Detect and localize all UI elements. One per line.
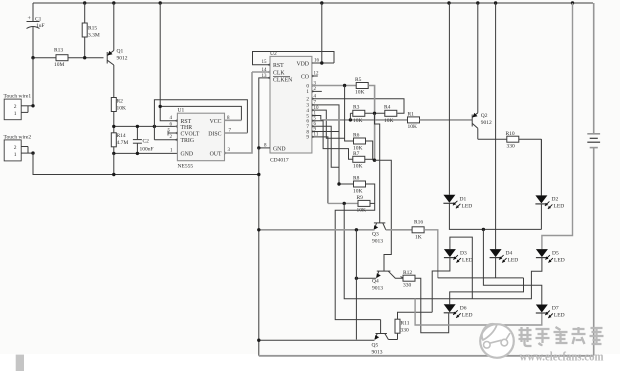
resistor R13 — [33, 57, 56, 59]
diode D6 LED — [444, 304, 456, 312]
svg-text:10K: 10K — [384, 118, 394, 124]
wire CD4017 VDD from rail — [321, 3, 323, 63]
svg-text:LED: LED — [554, 313, 565, 319]
wire V+ top rail — [33, 2, 593, 4]
wire D2 anode — [540, 139, 542, 195]
svg-text:R9: R9 — [357, 195, 364, 201]
wire Q6 output jog to R7 — [312, 121, 353, 160]
svg-text:R15: R15 — [88, 26, 97, 32]
wire R16 right down to LED cathode row — [424, 230, 438, 278]
resistor R6 — [354, 138, 366, 144]
wire bottom ground rail — [259, 355, 594, 357]
resistor R7 — [353, 156, 365, 162]
svg-text:100nF: 100nF — [140, 147, 154, 153]
svg-text:9: 9 — [306, 135, 309, 141]
watermark chinese text — [519, 327, 532, 346]
wire THR row (R2/R14/C2 to 555) — [114, 125, 178, 127]
wire Q0 to R6 column — [345, 86, 354, 142]
node top rail junctions — [83, 1, 86, 4]
svg-text:D3: D3 — [460, 251, 467, 257]
wire CD4017 CLK stub — [252, 71, 270, 73]
svg-text:R12: R12 — [403, 270, 412, 276]
wire R8 right down to node row — [335, 184, 380, 320]
wire Q5 output jog to gray row — [312, 116, 321, 120]
svg-text:330: 330 — [403, 283, 412, 289]
svg-text:10K: 10K — [353, 118, 363, 124]
svg-text:R6: R6 — [353, 133, 360, 139]
svg-text:DISC: DISC — [208, 132, 221, 138]
resistor R9 — [358, 200, 370, 206]
svg-text:1: 1 — [306, 89, 309, 95]
capacitor C2 — [136, 126, 138, 139]
svg-text:Q2: Q2 — [481, 113, 488, 119]
svg-text:3.3M: 3.3M — [88, 33, 100, 39]
capacitor C1 — [32, 3, 34, 21]
wire Q4 emitter row — [356, 277, 376, 279]
node R3-R4 junction to Q3 base — [373, 112, 376, 115]
svg-text:9013: 9013 — [372, 286, 383, 292]
wire R6 right down to R7 node — [366, 141, 373, 160]
wire 555 THR-TRIG-DISC loop — [154, 100, 247, 140]
wire D3 cathode jog — [432, 258, 450, 313]
555 pin chevrons — [175, 119, 177, 122]
wire Q2 output row to R4 loop — [312, 99, 404, 114]
svg-text:Touch wire2: Touch wire2 — [4, 134, 32, 140]
resistor R2 — [113, 97, 115, 99]
wire Q4 output jog to R6 — [312, 110, 345, 138]
diode D4 LED — [490, 249, 502, 257]
wire R5 right gray down — [368, 86, 374, 161]
svg-text:R5: R5 — [355, 77, 362, 83]
ui gray square bottom left — [16, 355, 24, 371]
wire Q5 collector to R11 — [388, 339, 397, 341]
svg-text:www.elecfans.com: www.elecfans.com — [520, 349, 604, 364]
svg-text:R16: R16 — [414, 220, 423, 226]
svg-text:OUT: OUT — [210, 152, 222, 158]
wire D5 cathode staircase to R11 node — [432, 258, 542, 299]
svg-text:VDD: VDD — [296, 62, 309, 68]
svg-text:LED: LED — [462, 204, 473, 210]
svg-text:2: 2 — [14, 145, 17, 151]
wire D4 anode from rail — [495, 3, 497, 249]
resistor R3 — [349, 113, 351, 120]
svg-text:D5: D5 — [552, 251, 559, 257]
svg-text:GND: GND — [273, 147, 286, 153]
svg-text:2: 2 — [14, 104, 17, 110]
svg-text:D4: D4 — [506, 251, 513, 257]
wire D6 anode row — [450, 278, 524, 304]
svg-text:9012: 9012 — [481, 120, 492, 126]
svg-text:R8: R8 — [353, 176, 360, 182]
resistor R11 — [395, 319, 400, 333]
wire Q3 collector row to R16 — [386, 229, 412, 231]
wire Q0 output row to R5 — [312, 85, 357, 87]
svg-text:9012: 9012 — [117, 56, 128, 62]
wire 555 OUT to CD4017 CLK — [225, 72, 253, 153]
svg-text:Q4: Q4 — [372, 279, 379, 285]
svg-text:CLKEN: CLKEN — [273, 78, 293, 84]
svg-text:LED: LED — [508, 258, 519, 264]
wire Q9 output to R9 — [312, 137, 328, 204]
svg-text:LED: LED — [462, 313, 473, 319]
diode D7 LED — [536, 305, 548, 313]
wire Q3 output to R8 column — [312, 105, 339, 184]
svg-text:1: 1 — [14, 152, 17, 158]
svg-text:D7: D7 — [552, 306, 559, 312]
svg-text:R4: R4 — [384, 105, 391, 111]
wire R9 node branch down to LED sink row — [344, 203, 432, 298]
node R13-R15 junction — [83, 56, 86, 59]
svg-text:C1: C1 — [35, 17, 42, 23]
diode D1 LED — [443, 195, 455, 203]
svg-text:9013: 9013 — [372, 350, 383, 356]
svg-text:10K: 10K — [357, 208, 367, 214]
wire D2 cathode down to row — [540, 204, 542, 230]
svg-text:R14: R14 — [117, 133, 126, 139]
diode D3 LED — [444, 249, 456, 257]
svg-text:CLK: CLK — [273, 71, 285, 77]
wire D3 anode loop — [450, 237, 472, 299]
svg-text:Q3: Q3 — [372, 232, 379, 238]
svg-text:R10: R10 — [506, 131, 515, 137]
wire emitter tie column Q3-Q4-Q5 — [355, 230, 357, 340]
wire cathode row down to R16 row — [483, 229, 541, 304]
wire 555 RST from rail — [160, 3, 177, 121]
svg-text:VCC: VCC — [210, 119, 222, 125]
resistor R8 — [339, 183, 354, 185]
wire 555 DISC stub — [225, 132, 248, 134]
wire Q1 stub pin2 — [312, 90, 322, 92]
svg-text:1K: 1K — [415, 235, 422, 241]
wire touch wire2 down to gnd row — [33, 153, 259, 174]
svg-text:U1: U1 — [178, 108, 185, 114]
wire 555 VCC stub — [225, 119, 242, 121]
wire R12 right down to D6 cathode row — [415, 278, 449, 333]
wire D4 cathode joins sink row — [495, 258, 497, 278]
transistor Q1 9012 — [106, 52, 108, 64]
svg-text:CVOLT: CVOLT — [181, 132, 200, 138]
wire R9 right up to R8 node — [370, 202, 375, 204]
resistor R1 — [408, 117, 420, 123]
wire R14 col to touch gnd row — [113, 153, 115, 174]
wire CD4017 CLKEN to ground column — [259, 78, 270, 148]
svg-text:RST: RST — [273, 63, 284, 69]
svg-text:D6: D6 — [460, 306, 467, 312]
wire Q5 emitter row to ground — [259, 339, 375, 341]
svg-text:15: 15 — [262, 60, 268, 65]
svg-text:4.7M: 4.7M — [117, 140, 129, 146]
wire R11 top to D3/D5 cathode node — [398, 312, 433, 319]
svg-text:NE555: NE555 — [178, 164, 194, 170]
svg-text:D1: D1 — [460, 197, 467, 203]
diode D5 LED — [536, 249, 548, 257]
watermark logo circle — [480, 324, 514, 358]
wire ground column down to bottom rail — [258, 148, 260, 356]
svg-text:LED: LED — [554, 258, 565, 264]
transistor Q2 9012 — [471, 115, 473, 127]
battery B1 — [593, 3, 595, 134]
wire GND row (R14/C2 to 555 GND) — [114, 152, 178, 154]
wire D1 anode from rail — [448, 3, 450, 195]
wire R10 to D2 anode — [540, 139, 542, 195]
resistor R12 — [403, 275, 415, 281]
svg-text:1uF: 1uF — [36, 23, 45, 29]
svg-text:9013: 9013 — [372, 239, 383, 245]
wire Q3 emitter row to ground — [259, 229, 375, 231]
wire touch wire1 to C1/R13 node — [32, 58, 34, 106]
resistor R4 — [385, 110, 397, 116]
wire 555 RST-VCC loop — [160, 106, 241, 120]
wire 555 CVOLT stub — [168, 132, 177, 134]
wire Q5 gray row to R1 — [321, 119, 408, 121]
wire CD4017 GND stub — [259, 147, 270, 149]
svg-text:10K: 10K — [353, 164, 363, 170]
transistor Q3 9013 — [374, 222, 385, 224]
svg-text:Q1: Q1 — [117, 49, 124, 55]
svg-text:10K: 10K — [117, 106, 127, 112]
wire D1-D2 cathode row — [449, 203, 541, 229]
svg-text:10K: 10K — [408, 124, 418, 130]
wire R7 node to Q4 base column — [365, 158, 375, 160]
svg-text:R2: R2 — [117, 99, 124, 105]
svg-text:R1: R1 — [408, 112, 415, 118]
transistor Q5 9013 — [376, 333, 387, 335]
svg-text:10K: 10K — [353, 188, 363, 194]
svg-text:Touch wire1: Touch wire1 — [4, 94, 32, 100]
resistor R15 — [84, 3, 86, 23]
wire Q4 collector to R12 — [401, 277, 404, 279]
svg-text:CO: CO — [301, 75, 309, 81]
svg-text:LED: LED — [554, 204, 565, 210]
svg-text:R7: R7 — [353, 151, 360, 157]
svg-text:330: 330 — [401, 328, 410, 334]
svg-text:R3: R3 — [353, 105, 360, 111]
diode D2 LED — [535, 195, 547, 203]
wire CD4017 RST-VDD loop — [253, 52, 335, 65]
wire D5 anode from rail jog — [542, 3, 573, 249]
svg-text:10K: 10K — [355, 90, 365, 96]
svg-text:C2: C2 — [143, 139, 150, 145]
resistor R16 — [412, 227, 424, 233]
resistor R14 — [113, 126, 115, 132]
wire Q5 base lead — [380, 320, 382, 334]
wire R1 to Q2 base — [420, 119, 473, 121]
svg-text:CD4017: CD4017 — [270, 158, 289, 164]
svg-text:TRIG: TRIG — [181, 138, 195, 144]
svg-text:D2: D2 — [552, 197, 559, 203]
resistor R5 — [356, 83, 368, 89]
svg-text:LED: LED — [462, 258, 473, 264]
wire Q7 output jog — [312, 126, 339, 167]
svg-text:10M: 10M — [54, 62, 65, 68]
wire Q8 output stub — [312, 131, 339, 133]
wire D7 cathode return to sink row — [415, 299, 542, 325]
svg-text:2: 2 — [306, 97, 309, 103]
CD4017 pin chevrons — [268, 64, 270, 67]
wire R16 row across (sink row) — [438, 277, 524, 279]
svg-text:1: 1 — [14, 111, 17, 117]
wire CO stub pin12 — [312, 75, 318, 77]
svg-text:R13: R13 — [54, 48, 63, 54]
svg-text:330: 330 — [507, 144, 516, 150]
svg-text:GND: GND — [181, 152, 194, 158]
resistor R10 — [478, 138, 507, 140]
transistor Q4 9013 — [377, 270, 391, 272]
svg-text:R11: R11 — [401, 321, 410, 327]
svg-text:Q5: Q5 — [372, 343, 379, 349]
svg-text:THR: THR — [181, 125, 193, 131]
